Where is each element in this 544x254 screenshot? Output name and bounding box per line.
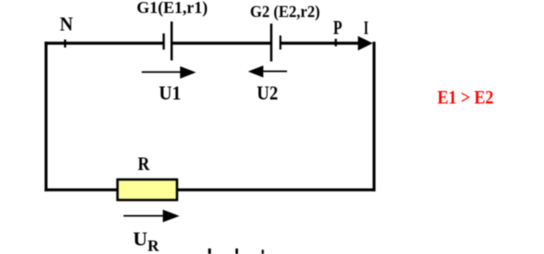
battery G2 short plate (negative)	[279, 36, 281, 50]
cut-off caption stroke 2 at bottom edge	[236, 249, 239, 254]
wire: top side, segment between battery G1 and battery G2	[172, 42, 271, 45]
arrow U2 (voltage across G2, pointing left)	[248, 66, 287, 78]
svg-text:U1: U1	[159, 83, 181, 105]
battery G1 short plate (negative)	[163, 33, 165, 49]
current I arrowhead on top wire	[358, 36, 373, 51]
svg-text:U2: U2	[257, 83, 278, 105]
wire: left vertical side of loop	[45, 42, 48, 192]
wire: right vertical side of loop	[373, 42, 376, 192]
node N tick	[64, 40, 66, 48]
svg-text:P: P	[333, 17, 342, 39]
svg-text:E1 > E2: E1 > E2	[437, 88, 493, 109]
arrow U1 (voltage across G1, pointing right)	[142, 66, 196, 78]
wire: top side, left segment from N corner to battery G1	[45, 42, 164, 45]
svg-text:R: R	[138, 154, 150, 175]
svg-text:I: I	[364, 18, 369, 39]
battery G2 long plate (positive)	[270, 24, 272, 62]
svg-text:G1(E1,r1): G1(E1,r1)	[137, 0, 208, 17]
cut-off caption stroke 1 at bottom edge	[208, 249, 211, 254]
node P tick	[335, 39, 337, 47]
wire: top side, segment from battery G2 to current arrow	[281, 42, 361, 45]
resistor R body	[118, 180, 178, 201]
svg-text:UR: UR	[133, 229, 159, 254]
arrow UR (voltage across R, pointing right)	[124, 210, 180, 223]
wire: bottom side of loop	[45, 188, 376, 191]
cut-off caption stroke 3 at bottom edge	[262, 250, 264, 254]
svg-text:G2 (E2,r2): G2 (E2,r2)	[250, 2, 320, 21]
battery G1 long plate (positive)	[171, 22, 173, 61]
svg-text:N: N	[60, 14, 74, 36]
